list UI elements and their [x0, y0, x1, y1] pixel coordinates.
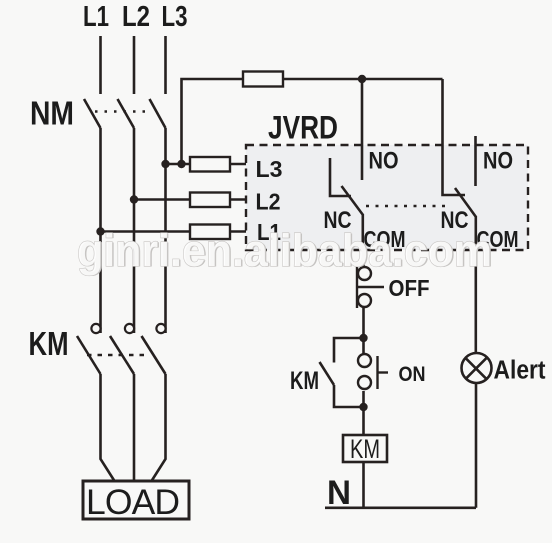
- svg-text:L3: L3: [162, 1, 188, 33]
- svg-text:LOAD: LOAD: [86, 482, 180, 522]
- contactor KM pole 3 fixed contact circle: [156, 324, 165, 333]
- watermark ginri.en.alibaba.com: [77, 225, 494, 277]
- breaker NM pole 2 blade: [118, 99, 135, 128]
- contactor KM pole 1 fixed contact circle: [91, 324, 100, 333]
- node junction L2 row: [130, 195, 138, 203]
- wire OFF to junction: [362, 307, 365, 338]
- pushbutton ON upper terminal circle: [358, 354, 371, 367]
- lamp Alert: [462, 353, 492, 383]
- breaker NM pole 3 blade: [150, 99, 166, 128]
- fuse F4 (L1 row): [190, 225, 230, 240]
- node junction top feeder / NO line: [358, 75, 366, 83]
- wire junction to ON upper circle: [362, 338, 365, 354]
- pushbutton OFF actuator bar: [357, 286, 384, 288]
- wire L2 row to relay: [134, 198, 246, 201]
- wire COM resume to OFF: [362, 264, 365, 268]
- pushbutton OFF lower terminal circle: [358, 294, 371, 307]
- wire pole 1 to LOAD: [101, 374, 115, 481]
- pushbutton OFF bridge bar: [356, 266, 358, 308]
- contact KM aux blade: [320, 362, 335, 385]
- wire pole 2 to LOAD: [133, 374, 136, 481]
- node junction feeder corner on L3 row: [177, 160, 185, 168]
- relay contact K1 NC terminal: [330, 158, 351, 196]
- JVRD relay dashed box (gray fill): [246, 145, 528, 250]
- wire Alert to N rail: [475, 383, 478, 508]
- wire top feeder (from L3 row up and across): [182, 79, 443, 164]
- node junction below ON: [359, 403, 367, 411]
- svg-text:NO: NO: [369, 148, 399, 175]
- coil KM box: [343, 435, 387, 462]
- contact KM aux lower wire: [334, 385, 364, 407]
- pushbutton ON actuator bar: [376, 356, 378, 389]
- contact KM aux branch upper wire: [334, 338, 364, 363]
- relay contact K2 COM wire: [474, 216, 477, 354]
- pushbutton ON actuator tick: [378, 371, 389, 373]
- svg-text:L3: L3: [256, 156, 283, 182]
- breaker NM mechanical link (dotted): [95, 110, 152, 113]
- contactor KM pole 2 fixed contact circle: [125, 324, 134, 333]
- svg-text:KM: KM: [29, 325, 69, 362]
- pushbutton OFF upper terminal circle: [358, 267, 371, 280]
- svg-text:ON: ON: [399, 363, 426, 386]
- wire L3 incoming: [164, 36, 167, 94]
- svg-text:ginri.en.alibaba.com: ginri.en.alibaba.com: [77, 225, 492, 276]
- svg-text:OFF: OFF: [389, 275, 430, 301]
- svg-text:L2: L2: [256, 189, 281, 215]
- wire L1 incoming: [99, 36, 102, 94]
- contactor KM pole 2 blade: [110, 336, 134, 374]
- svg-text:NO: NO: [483, 148, 513, 175]
- svg-text:L2: L2: [122, 1, 150, 33]
- fuse F1 (top feeder): [243, 72, 283, 87]
- svg-text:JVRD: JVRD: [268, 110, 338, 146]
- fuse F3 (L2 row): [190, 193, 230, 208]
- contactor KM mechanical link (dotted): [87, 354, 150, 357]
- pushbutton ON lower terminal circle: [358, 376, 371, 389]
- relay contact K1 blade: [342, 186, 364, 215]
- wire L1 vertical run: [99, 128, 102, 333]
- relay contact K2 NC feed wire (from top feeder): [443, 79, 466, 195]
- node junction L3 row: [161, 160, 169, 168]
- contactor KM pole 1 blade: [77, 336, 101, 374]
- box LOAD: [83, 481, 189, 519]
- svg-text:Alert: Alert: [494, 357, 546, 385]
- wire L3 vertical run: [164, 128, 167, 333]
- wire N rail: [325, 506, 476, 509]
- contactor KM pole 3 blade: [142, 336, 166, 374]
- relay contacts mechanical link (dotted): [366, 205, 448, 208]
- svg-text:L1: L1: [83, 1, 109, 33]
- svg-text:KM: KM: [290, 367, 319, 395]
- relay contact K2 NO terminal wire: [474, 136, 477, 186]
- wire L3 row to relay: [166, 163, 247, 166]
- relay contact K2 blade: [455, 188, 476, 217]
- wire L2 vertical run: [133, 128, 136, 333]
- node junction above ON: [359, 334, 367, 342]
- fuse F2 (L3 row): [190, 157, 230, 172]
- wire ON lower circle to junction: [362, 391, 365, 407]
- svg-text:NM: NM: [30, 96, 74, 133]
- relay contact K1 COM wire: [361, 214, 364, 250]
- wire KM coil to N: [362, 462, 365, 508]
- node junction L1 row: [96, 227, 104, 235]
- breaker NM pole 1 blade: [84, 99, 101, 128]
- svg-text:N: N: [327, 474, 351, 512]
- svg-text:KM: KM: [350, 434, 380, 464]
- wire pole 3 to LOAD: [152, 374, 166, 481]
- wire L1 row to relay: [101, 230, 247, 233]
- wire L2 incoming: [133, 36, 136, 94]
- wire junction to KM coil: [362, 407, 365, 435]
- relay contact K1 NO terminal wire: [361, 79, 364, 180]
